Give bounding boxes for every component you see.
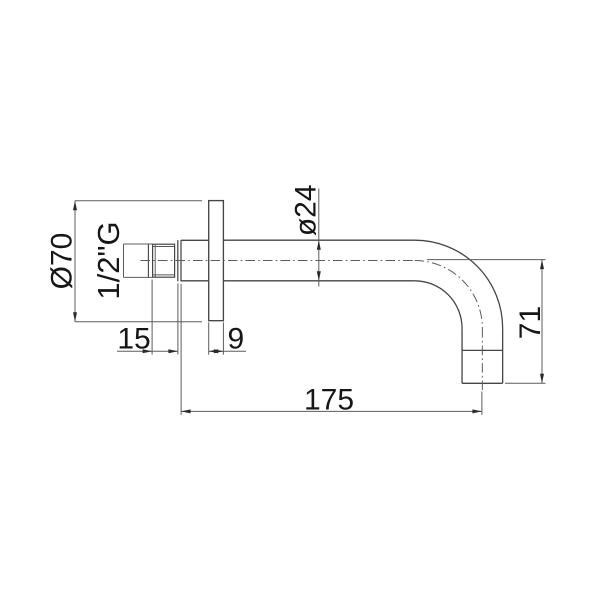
svg-text:15: 15 bbox=[117, 323, 150, 356]
dimension 15: arrowhead at left extension pointing right bbox=[143, 349, 153, 353]
spout tube: neck between flange and plate bbox=[181, 240, 209, 280]
dimension 71: arrowhead up bbox=[540, 260, 544, 270]
thread minor-diameter inner lines bbox=[153, 244, 175, 277]
wall plate (escutcheon, Ø70 round flange, side view) bbox=[209, 201, 224, 321]
dimension 175: extension line left (wall face) bbox=[180, 284, 182, 415]
dimension Ø70: arrowhead up bbox=[73, 201, 77, 211]
dimension Ø70: extension line top bbox=[75, 200, 202, 202]
dimension ø24: arrowhead up bbox=[317, 240, 321, 250]
centerline bend arc bbox=[415, 261, 483, 329]
svg-text:175: 175 bbox=[304, 383, 354, 416]
thread end cap / chamfer bbox=[147, 244, 149, 277]
dimension 71: dimension line bbox=[541, 260, 543, 384]
dimension 15: extension line right (at flange face) bbox=[177, 283, 179, 354]
dimension 9: arrowhead pointing right bbox=[214, 349, 224, 353]
spout bend: inner wall arc bbox=[415, 281, 462, 328]
dimension Ø70: extension line bottom bbox=[75, 321, 202, 323]
dimension 15: extension line left (from thread end) bbox=[151, 280, 153, 355]
dimension Ø70: dimension line bbox=[74, 201, 76, 322]
threaded nipple 1/2"G (major diameter rectangle) bbox=[153, 244, 175, 277]
outlet nozzle joint line bbox=[462, 349, 503, 351]
dimension 15: arrowhead at right extension pointing right bbox=[168, 349, 178, 353]
spout vertical outlet section bbox=[462, 328, 503, 383]
svg-text:ø24: ø24 bbox=[290, 184, 323, 236]
dimension 175: arrowhead right bbox=[472, 409, 482, 413]
flange ring at wall face bbox=[178, 240, 181, 281]
dimension 9: dimension line with tail under text bbox=[209, 350, 246, 352]
svg-text:1/2"G: 1/2"G bbox=[91, 221, 126, 299]
centerline vertical through outlet bbox=[481, 328, 483, 391]
centerline horizontal (dash-dot axis) bbox=[141, 260, 415, 262]
dimension 175: extension line right (outlet axis) bbox=[481, 392, 483, 415]
thread callout 1/2"G: bracket lines bbox=[124, 244, 153, 277]
dimension ø24: arrowhead down bbox=[317, 271, 321, 281]
dimension 9: arrowhead pointing left bbox=[209, 349, 219, 353]
dimension 9: extension line right (plate front) bbox=[222, 322, 224, 354]
dimension 71: extension line bottom (outlet mouth) bbox=[505, 382, 546, 384]
dimension 9: extension line left (plate back) bbox=[208, 322, 210, 354]
dimension 71: arrowhead down bbox=[540, 374, 544, 384]
dimension 175: arrowhead left bbox=[181, 409, 191, 413]
dimension 71: extension line top (at spout axis) bbox=[427, 259, 546, 261]
svg-text:71: 71 bbox=[514, 306, 547, 339]
dimension ø24: dimension line vertical bbox=[318, 189, 320, 287]
spout tube: horizontal run from plate to bend bbox=[223, 240, 414, 281]
dimension 15: dimension line with tail under text bbox=[117, 350, 178, 352]
svg-text:Ø70: Ø70 bbox=[45, 233, 78, 290]
spout bend: outer wall arc bbox=[415, 240, 503, 328]
dimension Ø70: arrowhead down bbox=[73, 312, 77, 322]
dimension 175: dimension line bbox=[181, 410, 482, 412]
svg-text:9: 9 bbox=[227, 323, 244, 356]
outlet mouth bottom face bbox=[462, 382, 503, 384]
